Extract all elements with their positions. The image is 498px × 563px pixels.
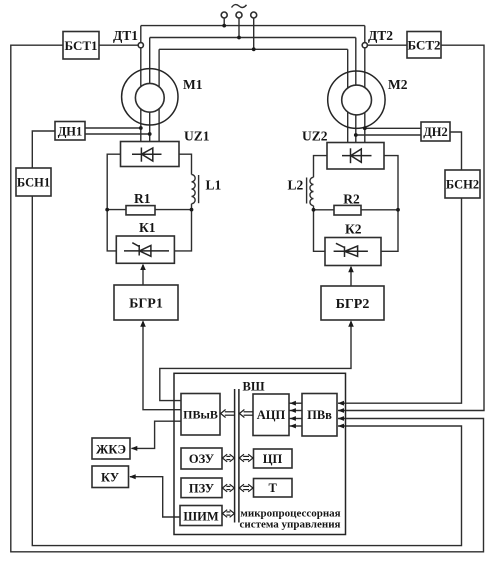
wire: DT2 to BST2 <box>367 44 407 46</box>
wire: DN1 lower tap to rotor wire <box>85 133 150 135</box>
svg-text:ЖКЭ: ЖКЭ <box>96 443 126 457</box>
thyristor K2 symbol <box>334 243 368 257</box>
svg-text:ДТ1: ДТ1 <box>113 28 138 43</box>
svg-text:R2: R2 <box>343 192 360 207</box>
svg-text:ОЗУ: ОЗУ <box>189 452 214 466</box>
arrowhead: K2 gate <box>348 266 354 272</box>
junction R1 left <box>105 208 109 212</box>
block CP <box>254 449 293 468</box>
wire: phase 3 down to motor M2 and UZ2 <box>347 49 349 142</box>
wire: BSN2 output down to PVv input 1 <box>338 198 462 403</box>
arrowhead: ZhKE input <box>131 446 138 451</box>
block BST2 <box>407 32 441 59</box>
thyristor K1 box <box>116 236 174 263</box>
junction terminal 3 / line 3 <box>252 47 256 51</box>
wire: BGR1 to K1 gate <box>142 265 144 285</box>
rectifier UZ2 box <box>327 143 384 170</box>
open arrow: PZU bus <box>222 484 234 492</box>
svg-text:Т: Т <box>269 481 278 495</box>
block PVyV <box>181 394 220 436</box>
svg-text:ШИМ: ШИМ <box>183 510 218 524</box>
motor M2 inner circle (rotor) <box>342 85 372 115</box>
svg-text:К2: К2 <box>345 222 362 237</box>
arrowhead: ACP input 1 <box>290 401 296 406</box>
svg-text:К1: К1 <box>139 220 156 235</box>
svg-text:ПВыВ: ПВыВ <box>183 408 218 422</box>
terminal stem 1 <box>223 18 225 26</box>
block OZU <box>181 448 222 469</box>
svg-text:М2: М2 <box>388 77 408 92</box>
block BST1 <box>63 32 99 60</box>
AC source tilde <box>232 5 247 8</box>
svg-text:ЦП: ЦП <box>263 452 283 466</box>
svg-text:М1: М1 <box>183 77 203 92</box>
wire PVv to ACP 4 <box>290 425 303 427</box>
terminal 3 <box>251 12 257 18</box>
diode UZ2 symbol <box>342 148 372 163</box>
diode UZ1 symbol <box>132 148 162 162</box>
svg-text:UZ2: UZ2 <box>302 129 328 144</box>
wire: BSN1 output down and bottom to PVv input 4 <box>32 196 461 546</box>
block BSN2 <box>445 170 480 198</box>
wire: L1 down to K1 right branch <box>174 204 191 251</box>
svg-text:БГР2: БГР2 <box>336 297 370 312</box>
wire: R1 row left segment <box>107 209 126 211</box>
wire: UZ2 left lead to L2 <box>314 156 328 178</box>
arrowhead: K1 gate <box>140 264 146 270</box>
svg-text:L2: L2 <box>288 178 304 193</box>
arrowhead: PVv input 1 <box>338 401 344 406</box>
wire: UZ1 right lead to L1 <box>179 154 192 174</box>
arrowhead: PVv input 2 <box>338 408 344 413</box>
inductor L1 coil <box>192 175 196 204</box>
inductor L2 coil <box>310 177 314 205</box>
junction R2 left <box>312 208 316 212</box>
wire PVv to ACP 2 <box>290 410 303 412</box>
block BSN1 <box>16 168 51 196</box>
block BGR1 <box>114 285 178 320</box>
thyristor K1 symbol <box>124 243 169 257</box>
block BGR2 <box>321 286 384 320</box>
wire: PVyV to ZhKE display <box>132 421 182 448</box>
arrowhead: BGR2 input <box>348 320 354 326</box>
junction DN2 tap upper <box>363 126 367 130</box>
junction R1 right <box>190 208 194 212</box>
open arrow: OZU bus <box>222 454 234 462</box>
svg-text:АЦП: АЦП <box>257 408 286 422</box>
block ShIM <box>180 506 222 526</box>
block DN2 <box>421 122 450 141</box>
wire: DN2 upper tap to rotor wire <box>365 127 421 129</box>
junction R2 right <box>396 208 400 212</box>
block ACP <box>253 394 289 436</box>
wire: L2 down to K2 left branch <box>314 206 326 252</box>
terminal 2 <box>236 12 242 18</box>
wire PVv to ACP 1 <box>290 402 303 404</box>
block KU <box>92 466 129 488</box>
microprocessor system big box <box>174 373 346 534</box>
wire: DN1 upper tap to rotor wire <box>85 127 141 129</box>
svg-text:ПЗУ: ПЗУ <box>189 482 214 496</box>
terminal stem 2 <box>238 18 240 38</box>
arrowhead: ACP input 2 <box>290 408 296 413</box>
open arrow: CP bus <box>239 454 253 462</box>
svg-text:БГР1: БГР1 <box>129 297 163 312</box>
open arrow: ShIM bus <box>222 510 234 518</box>
arrowhead: KU input <box>129 474 136 479</box>
svg-text:ДН1: ДН1 <box>58 125 83 139</box>
phase bus line 3 <box>159 48 348 50</box>
motor M1 outer circle (stator) <box>122 69 178 125</box>
current sensor DT2 <box>362 43 367 48</box>
svg-text:КУ: КУ <box>101 471 119 485</box>
arrowhead: BGR1 input <box>140 320 146 326</box>
wire: phase 2 down to motor M2 and UZ2 <box>355 38 357 143</box>
terminal 1 <box>221 12 227 18</box>
resistor R1 <box>126 206 155 215</box>
wire: R2 row right segment <box>361 209 398 211</box>
wire: DN2 lower tap to rotor wire <box>356 134 421 136</box>
wire: phase 3 down to motor M1 and UZ1 <box>158 49 160 141</box>
wire: PVyV to BGR1 <box>143 322 181 410</box>
svg-text:БСТ1: БСТ1 <box>64 38 97 53</box>
wire: phase 2 down to motor M1 and UZ1 <box>149 38 151 142</box>
current sensor DT1 <box>138 43 143 48</box>
svg-text:R1: R1 <box>134 191 151 206</box>
junction terminal 2 / line 2 <box>237 36 241 40</box>
wire: phase 1 down to motor M2 and UZ2 <box>364 26 366 143</box>
block DN1 <box>55 122 85 141</box>
svg-text:L1: L1 <box>206 178 222 193</box>
arrowhead: PVv input 4 <box>338 424 344 429</box>
wire: BGR2 to K2 gate <box>350 267 352 286</box>
wire: PVyV to BGR2 <box>160 322 351 401</box>
rectifier UZ1 box <box>121 142 180 167</box>
wire: ShIM to KU <box>130 477 181 517</box>
wire: R2 row left segment <box>314 209 335 211</box>
motor M1 inner circle (rotor) <box>135 83 164 112</box>
wire: DN2 output to BSN2 <box>450 132 462 170</box>
svg-text:БСН1: БСН1 <box>17 176 50 190</box>
terminal stem 3 <box>253 18 255 49</box>
open arrow: ACP to bus <box>239 410 253 418</box>
svg-text:ВШ: ВШ <box>243 380 265 394</box>
block PZU <box>181 478 222 498</box>
wire: DN1 output to BSN1 <box>32 131 55 168</box>
wire: UZ1 left lead down left branch <box>107 154 120 251</box>
phase bus line 2 <box>150 37 356 39</box>
thyristor K2 box <box>325 238 381 266</box>
junction DN2 tap lower <box>354 133 358 137</box>
junction terminal 1 / line 1 <box>222 24 226 28</box>
block ZhKE <box>92 438 130 459</box>
junction DN1 tap lower <box>148 132 152 136</box>
arrowhead: ACP input 3 <box>290 416 296 421</box>
svg-text:ПВв: ПВв <box>307 408 332 422</box>
svg-text:ДТ2: ДТ2 <box>368 28 393 43</box>
wire: BST2 output right and down to PVv input 2 <box>338 45 484 410</box>
motor M2 outer circle (stator) <box>328 71 385 128</box>
junction DN1 tap upper <box>139 126 143 130</box>
svg-text:UZ1: UZ1 <box>184 129 210 144</box>
open arrow: bus to PVyV <box>221 410 235 418</box>
phase bus line 1 <box>141 25 365 27</box>
inductor L2 core line <box>306 178 308 204</box>
svg-text:БСН2: БСН2 <box>446 178 479 192</box>
svg-text:БСТ2: БСТ2 <box>407 38 440 53</box>
wire: R1 row right segment <box>155 209 192 211</box>
system bus VSh bar <box>235 389 239 523</box>
arrowhead: PVv input 3 <box>338 416 344 421</box>
wire: phase 1 down to motor M1 and UZ1 <box>140 26 142 142</box>
svg-text:ДН2: ДН2 <box>423 125 448 139</box>
wire: BST1 to DT1 <box>99 44 138 46</box>
inductor L1 core line <box>198 175 200 203</box>
arrowhead: ACP input 4 <box>290 424 296 429</box>
block T <box>254 479 293 498</box>
wire PVv to ACP 3 <box>290 418 303 420</box>
resistor R2 <box>334 205 361 215</box>
wire: UZ2 right lead down right branch <box>381 156 398 252</box>
open arrow: T bus <box>239 484 253 492</box>
block PVv <box>302 394 337 437</box>
svg-text:система управления: система управления <box>240 518 341 530</box>
